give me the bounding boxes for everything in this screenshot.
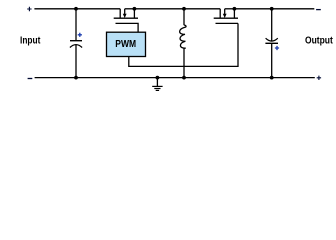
wire bottom rail bbox=[35, 77, 315, 79]
node + input top-left bbox=[27, 7, 31, 11]
svg-text:Input: Input bbox=[20, 36, 41, 47]
wire top rail right segment bbox=[234, 8, 314, 10]
wire PWM gate drive to Q2 bbox=[129, 23, 238, 66]
capacitor C1 input bbox=[70, 9, 82, 78]
node + output bottom-right bbox=[317, 76, 321, 80]
svg-text:Output: Output bbox=[305, 36, 333, 47]
capacitor C2 polarity + bbox=[275, 46, 279, 50]
wire top rail middle segment bbox=[134, 8, 220, 10]
node junction dots bottom rail bbox=[74, 76, 274, 80]
node junction dots top rail bbox=[74, 7, 274, 11]
node - output top-right bbox=[316, 9, 321, 11]
svg-text:PWM: PWM bbox=[115, 39, 136, 50]
transistor Q1 high-side FET bbox=[114, 9, 138, 32]
transistor Q2 FET bbox=[214, 9, 238, 24]
inductor L1 bbox=[180, 9, 186, 78]
capacitor C2 output bbox=[265, 9, 278, 78]
op-amp U1 PWM controller box bbox=[107, 32, 146, 56]
ground bbox=[152, 78, 162, 91]
node - input bottom-left bbox=[28, 78, 33, 80]
wire top rail left segment bbox=[34, 8, 120, 10]
capacitor C1 polarity + bbox=[78, 33, 82, 37]
